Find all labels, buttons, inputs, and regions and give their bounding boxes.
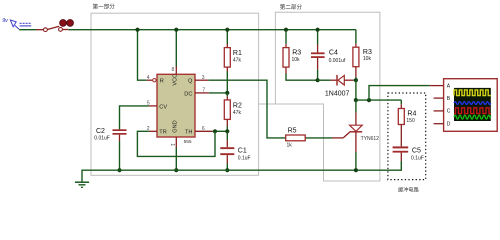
node DC junction <box>225 91 229 95</box>
svg-text:R5: R5 <box>288 127 297 134</box>
wire R1 to node DC <box>226 67 228 71</box>
svg-text:555: 555 <box>184 139 192 145</box>
wire C5 to ground rail <box>400 153 402 161</box>
wire R4 column <box>400 100 402 104</box>
resistor R5 1k <box>286 127 306 148</box>
svg-text:CV: CV <box>159 104 167 110</box>
svg-text:1k: 1k <box>287 143 293 149</box>
svg-text:0.01uF: 0.01uF <box>94 136 110 142</box>
wire anode node to R4 <box>356 99 401 101</box>
svg-text:第一部分: 第一部分 <box>93 3 116 11</box>
svg-text:C: C <box>447 109 451 115</box>
wire R4 to C5 <box>400 125 402 147</box>
oscilloscope <box>434 79 498 132</box>
node TH-C1 <box>225 129 229 133</box>
svg-text:8: 8 <box>172 67 175 73</box>
op-amp 555 timer U1 <box>153 74 195 145</box>
svg-text:10k: 10k <box>363 56 372 62</box>
waveform C red square <box>454 108 491 114</box>
wire node DC to R2 <box>96 92 227 94</box>
region box 第二部分 <box>259 3 380 181</box>
wire ground rail <box>82 161 401 182</box>
resistor R3b 10k <box>353 47 372 66</box>
wire thyristor cathode to ground rail <box>355 132 357 152</box>
wire diode row <box>318 79 331 81</box>
wire rail to C4 <box>317 30 319 45</box>
power terminal BAT 9V <box>2 18 31 29</box>
wire pin6 TH <box>195 130 212 132</box>
switch SW1 <box>44 20 74 32</box>
svg-text:0.001uf: 0.001uf <box>329 58 346 64</box>
svg-text:C4: C4 <box>329 50 338 57</box>
wire pin5 CV to C2 <box>149 105 157 107</box>
svg-text:R3: R3 <box>292 50 301 57</box>
snubber dotted box 缓冲电路 <box>388 93 426 194</box>
node pin1-gnd <box>174 168 178 172</box>
node scope branch <box>367 98 371 102</box>
wire R3b bottom to diode node <box>355 67 357 77</box>
waveform A yellow square <box>454 90 491 96</box>
node anode junction <box>354 98 358 102</box>
svg-text:4: 4 <box>147 75 150 81</box>
wire R3a bottom to diode row <box>285 67 287 73</box>
svg-text:47k: 47k <box>233 110 242 116</box>
wire rail to R3a <box>285 30 287 44</box>
capacitor C5 0.1uF <box>393 146 424 161</box>
region box 第一部分 <box>91 3 259 176</box>
svg-text:1: 1 <box>169 143 175 146</box>
wire rail to pin8 VCC <box>175 30 177 67</box>
wire pin7 DC <box>195 92 209 94</box>
svg-text:缓冲电路: 缓冲电路 <box>398 186 420 194</box>
wire scope A branch <box>369 86 430 101</box>
wire C4 bottom to diode node <box>317 58 319 70</box>
wire rail corner to R3b <box>355 30 357 44</box>
svg-text:TYN612: TYN612 <box>361 136 380 142</box>
diode D1 1N4007 <box>325 75 353 98</box>
wire C2 to ground rail <box>119 135 121 141</box>
wire pin1 GND down <box>175 137 177 148</box>
wire gate to R5 <box>305 137 332 139</box>
wire main top rail <box>68 29 356 31</box>
svg-text:47k: 47k <box>233 58 242 64</box>
resistor R2 47k <box>224 100 242 120</box>
svg-text:150: 150 <box>406 118 415 124</box>
svg-text:TH: TH <box>185 130 192 136</box>
svg-text:0.1uF: 0.1uF <box>411 155 424 161</box>
waveform B blue wave <box>454 102 491 105</box>
thyristor TYN612 <box>332 125 379 142</box>
capacitor C1 0.1uF <box>220 131 250 170</box>
svg-text:TR: TR <box>159 130 166 136</box>
node rail-C4 <box>316 28 320 32</box>
svg-text:C5: C5 <box>412 147 421 154</box>
capacitor C2 0.01uF <box>94 128 126 142</box>
wire R2 bottom to TH node <box>226 119 228 126</box>
node diode-right <box>354 78 358 82</box>
svg-text:GND: GND <box>173 120 179 132</box>
wire pin3 Q output <box>195 79 208 81</box>
node cathode-gnd <box>354 168 358 172</box>
wire anode node down to thyristor <box>355 100 357 112</box>
resistor R1 47k <box>224 48 242 68</box>
svg-text:R2: R2 <box>233 103 242 110</box>
svg-text:第二部分: 第二部分 <box>280 3 303 11</box>
node C1-gnd <box>225 168 229 172</box>
node rail-R3a <box>284 28 288 32</box>
node rail-pin4 <box>135 28 139 32</box>
svg-text:1N4007: 1N4007 <box>325 90 350 97</box>
wire diode node down to thyristor node <box>355 80 357 100</box>
svg-text:10k: 10k <box>292 57 301 63</box>
capacitor C4 0.001uf <box>311 50 346 64</box>
node C2-gnd <box>117 168 121 172</box>
svg-text:R4: R4 <box>407 111 416 118</box>
wire pin2 TR routed under chip <box>149 130 157 132</box>
svg-text:DC: DC <box>184 91 192 97</box>
svg-text:C1: C1 <box>238 148 247 155</box>
wire battery to switch <box>19 29 36 31</box>
node rail-pin8 <box>174 28 178 32</box>
wire rail to R1 <box>226 30 228 44</box>
node rail-R1 <box>225 28 229 32</box>
svg-text:R: R <box>160 79 164 85</box>
node TH-route <box>213 129 217 133</box>
svg-text:VCC: VCC <box>173 74 179 86</box>
resistor R4 150 <box>398 109 416 125</box>
svg-text:R1: R1 <box>233 50 242 57</box>
ground <box>75 182 89 187</box>
svg-text:Q: Q <box>188 79 193 85</box>
waveform D green sine <box>454 115 491 119</box>
svg-text:C2: C2 <box>96 128 105 135</box>
svg-text:0.1uF: 0.1uF <box>238 155 251 161</box>
svg-text:D: D <box>447 122 451 128</box>
resistor R3a 10k <box>283 48 301 68</box>
svg-text:9v: 9v <box>2 18 8 24</box>
wire rail to pin4 branch <box>138 30 147 80</box>
node diode-left <box>316 78 320 82</box>
svg-text:R3: R3 <box>363 49 372 56</box>
